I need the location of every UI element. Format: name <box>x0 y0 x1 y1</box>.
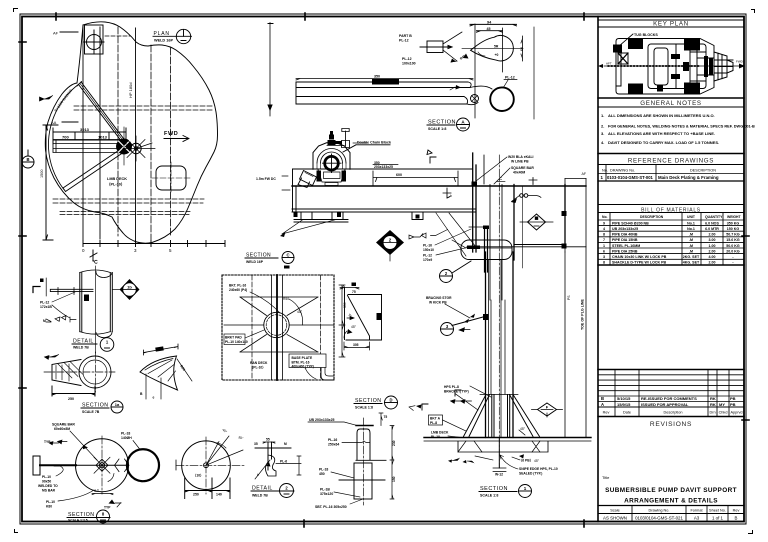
F corner symbols <box>455 390 461 396</box>
plan frame verticals dashed <box>118 27 171 240</box>
svg-text:45°: 45° <box>520 427 526 431</box>
svg-text:WELD 7B: WELD 7B <box>73 346 89 350</box>
svg-text:ISSUED FOR APPROVAL: ISSUED FOR APPROVAL <box>641 402 689 407</box>
svg-text:.M: .M <box>689 238 693 242</box>
cone flat-pattern fan detail <box>140 344 192 400</box>
svg-text:4.7: 4.7 <box>94 489 99 493</box>
right dim line <box>339 285 345 357</box>
svg-text:1.: 1. <box>601 113 604 118</box>
svg-text:PIPE DIA 40NB: PIPE DIA 40NB <box>612 233 638 237</box>
title block text <box>602 475 739 521</box>
svg-text:PIPE DIA 25NB: PIPE DIA 25NB <box>612 249 638 253</box>
svg-text:QUANTITY: QUANTITY <box>705 215 723 219</box>
plan view deck plate outline <box>22 22 273 350</box>
svg-text:3.00: 3.00 <box>709 238 716 242</box>
svg-text:150 KG: 150 KG <box>727 227 740 231</box>
section A-A davit arm beam <box>296 27 534 119</box>
insert plate plan (dashed square) <box>222 252 347 381</box>
svg-text:40x40M: 40x40M <box>513 171 525 175</box>
svg-text:MY: MY <box>719 402 725 407</box>
svg-text:700: 700 <box>62 135 69 140</box>
svg-text:8: 8 <box>603 261 605 265</box>
svg-text:60x60x8M: 60x60x8M <box>54 427 70 431</box>
svg-text:BILL OF MATERIALS: BILL OF MATERIALS <box>641 208 701 214</box>
svg-text:3.: 3. <box>601 131 604 136</box>
F corner mark <box>427 150 436 163</box>
section line vertical <box>533 27 535 119</box>
diamond symbol <box>528 214 546 230</box>
svg-text:A3: A3 <box>694 516 700 521</box>
davit post upper <box>443 153 541 300</box>
svg-text:5R: 5R <box>494 45 499 49</box>
svg-text:WELDED TO: WELDED TO <box>38 484 58 488</box>
svg-text:6.0 NOS: 6.0 NOS <box>705 222 719 226</box>
svg-text:PL-10 140x140: PL-10 140x140 <box>225 340 248 344</box>
svg-text:BRACING STGR: BRACING STGR <box>426 296 452 300</box>
key plan towing chain centerline <box>604 65 740 67</box>
svg-text:1: 1 <box>603 244 605 248</box>
svg-text:BKT A: BKT A <box>430 417 441 421</box>
svg-text:45°: 45° <box>534 459 540 463</box>
svg-text:35: 35 <box>254 442 258 446</box>
section A label <box>427 118 470 131</box>
svg-text:7: 7 <box>603 238 605 242</box>
svg-text:2KG. SET: 2KG. SET <box>683 255 700 259</box>
plan AA gridline label <box>62 121 78 123</box>
svg-text:-b-: -b- <box>348 313 352 317</box>
svg-text:SCALE 1:8: SCALE 1:8 <box>480 494 498 498</box>
svg-text:⟨PL-10⟩: ⟨PL-10⟩ <box>252 366 264 370</box>
svg-text:⟨6 PB⟩: ⟨6 PB⟩ <box>521 459 531 463</box>
svg-text:Main Deck Plating & Framing: Main Deck Plating & Framing <box>658 175 719 180</box>
plan left vertical dim line <box>43 125 58 240</box>
svg-text:SCALE 1:2.5: SCALE 1:2.5 <box>68 519 88 523</box>
svg-text:TYP: TYP <box>104 506 111 510</box>
svg-text:6.0 MTR: 6.0 MTR <box>705 227 719 231</box>
svg-text:No.: No. <box>602 215 608 219</box>
svg-text:2.: 2. <box>601 124 604 129</box>
svg-text:4.00: 4.00 <box>709 255 716 259</box>
svg-text:K80: K80 <box>46 505 52 509</box>
weld flag trio mid <box>451 400 462 404</box>
svg-text:45°: 45° <box>351 325 357 329</box>
svg-text:Drawing No.: Drawing No. <box>649 509 670 513</box>
svg-text:400x400 (TYP): 400x400 (TYP) <box>292 364 314 368</box>
plan weld flag left <box>40 96 53 102</box>
svg-text:8: 8 <box>603 233 605 237</box>
svg-text:ALL ELEVATIONS ARE WITH RESPEC: ALL ELEVATIONS ARE WITH RESPECT TO +BASE… <box>608 131 715 136</box>
svg-text:WELD 7B: WELD 7B <box>252 494 268 498</box>
svg-text:9: 9 <box>603 222 605 226</box>
left leaders to feet <box>282 176 290 190</box>
svg-text:203x133x25: 203x133x25 <box>374 165 393 169</box>
svg-text:b: b <box>450 194 452 198</box>
diamond E right <box>538 403 557 416</box>
svg-text:1500: 1500 <box>40 170 44 178</box>
svg-text:AA: AA <box>51 120 57 125</box>
weld flag left of A <box>83 445 88 449</box>
svg-text:Rev: Rev <box>603 411 610 415</box>
svg-text:D: D <box>389 398 392 403</box>
svg-text:KEY PLAN: KEY PLAN <box>653 21 689 28</box>
svg-text:15.6 KG: 15.6 KG <box>726 238 740 242</box>
svg-text:PL-8: PL-8 <box>430 421 437 425</box>
svg-text:R50: R50 <box>283 297 289 301</box>
svg-text:WEIGHT: WEIGHT <box>727 215 741 219</box>
svg-text:RAN DECK: RAN DECK <box>250 361 268 365</box>
BOM columns <box>610 213 723 266</box>
svg-text:150: 150 <box>392 476 396 482</box>
svg-text:45°: 45° <box>297 310 303 314</box>
plan centerline mark <box>90 250 97 260</box>
svg-text:Scale: Scale <box>610 509 620 513</box>
svg-text:350: 350 <box>343 302 347 308</box>
section D label <box>354 396 398 410</box>
svg-text:UNIT: UNIT <box>687 215 696 219</box>
svg-text:SCALE 1:8: SCALE 1:8 <box>428 127 446 131</box>
svg-text:SEALED (TYP.): SEALED (TYP.) <box>519 472 542 476</box>
ref drawing table columns <box>606 165 656 182</box>
pump silhouette below deck <box>436 213 512 272</box>
svg-text:1013: 1013 <box>98 135 108 140</box>
svg-text:PS: PS <box>567 295 571 300</box>
svg-text:C: C <box>286 253 289 258</box>
svg-text:Sheet No.: Sheet No. <box>709 509 726 513</box>
svg-text:4.: 4. <box>601 140 604 145</box>
svg-text:WELD 16P: WELD 16P <box>246 260 264 264</box>
svg-text:45: 45 <box>487 27 491 31</box>
svg-text:SQUARE BAR: SQUARE BAR <box>52 423 75 427</box>
svg-text:PIPE SCH40 Ø200 NB: PIPE SCH40 Ø200 NB <box>612 222 649 226</box>
svg-text:2.00: 2.00 <box>709 261 716 265</box>
svg-text:PIPE DIA 15NB: PIPE DIA 15NB <box>612 238 638 242</box>
svg-text:W-12: W-12 <box>495 473 503 477</box>
svg-text:0103-0104-GMS-ST-001: 0103-0104-GMS-ST-001 <box>607 175 654 180</box>
svg-text:203x133x25: 203x133x25 <box>374 81 393 85</box>
plan davit arm lower diagonal <box>63 149 124 192</box>
svg-text:PL-1B: PL-1B <box>320 488 330 492</box>
base gussets <box>464 395 540 437</box>
svg-text:Rev: Rev <box>733 509 740 513</box>
svg-text:B: B <box>601 396 604 401</box>
svg-text:No.1: No.1 <box>687 222 695 226</box>
plan AF gridline label <box>60 31 78 33</box>
svg-text:⟨10⟩: ⟨10⟩ <box>195 474 201 478</box>
svg-text:150x10: 150x10 <box>423 248 434 252</box>
left small dim tick <box>443 188 451 198</box>
plan girder strip verticals <box>83 25 100 240</box>
clip detail (DETAIL 2) <box>251 438 301 498</box>
beam pin circle <box>471 95 479 103</box>
svg-text:PL-10: PL-10 <box>46 500 55 504</box>
svg-text:6: 6 <box>603 249 605 253</box>
svg-text:305: 305 <box>353 343 359 347</box>
plan horizontal dashed stringers <box>53 106 214 215</box>
svg-text:20.0 KG: 20.0 KG <box>726 249 740 253</box>
section 1a right labels (UB channel top) <box>0 0 1 1</box>
svg-text:1a: 1a <box>115 402 120 407</box>
svg-text:Drn: Drn <box>709 411 715 415</box>
svg-text:e: e <box>153 396 155 400</box>
svg-text:240x60 (P4): 240x60 (P4) <box>229 288 247 292</box>
bottom circular details <box>33 423 246 524</box>
svg-text:.M: .M <box>689 233 693 237</box>
under deck structure <box>424 441 591 452</box>
svg-text:FOR GENERAL NOTES, WELDING NOT: FOR GENERAL NOTES, WELDING NOTES & MATER… <box>608 125 755 129</box>
pump top gear <box>328 131 343 145</box>
45 deg arc dim <box>289 299 303 325</box>
45 deg small mark <box>519 430 525 435</box>
svg-text:1.5m FW DC: 1.5m FW DC <box>256 177 276 181</box>
svg-text:5/10/15: 5/10/15 <box>617 396 631 401</box>
svg-text:W LINE PB: W LINE PB <box>511 160 529 164</box>
svg-text:WELD 16P: WELD 16P <box>154 39 173 43</box>
teardrop outline <box>471 35 514 60</box>
svg-text:50.0 KG: 50.0 KG <box>726 244 740 248</box>
plan davit arm stowed horizontal <box>53 140 124 153</box>
taper wedge bracket detail <box>340 283 382 351</box>
svg-text:.M: .M <box>689 244 693 248</box>
svg-text:GENERAL NOTES: GENERAL NOTES <box>640 100 701 107</box>
svg-text:15/9/15: 15/9/15 <box>617 402 631 407</box>
section cut symbol B (diamond with circle) <box>376 230 404 261</box>
svg-text:Apprvd: Apprvd <box>730 411 742 415</box>
svg-text:HPS PL-8: HPS PL-8 <box>444 385 459 389</box>
deck line at base <box>424 437 591 439</box>
svg-text:SNIPE EDGE HPS, PL-10: SNIPE EDGE HPS, PL-10 <box>519 467 558 471</box>
svg-text:4: 4 <box>603 227 605 231</box>
corner bracket <box>321 362 334 380</box>
svg-text:4KG. SET: 4KG. SET <box>683 261 700 265</box>
bill of materials table text <box>602 215 741 265</box>
key plan ship hull <box>598 33 745 94</box>
cone detail <box>44 352 123 414</box>
revisions columns <box>615 370 729 417</box>
svg-text:DESCRIPTION: DESCRIPTION <box>690 169 716 173</box>
svg-text:.M: .M <box>689 249 693 253</box>
svg-text:B: B <box>26 157 29 162</box>
lens marks between A and B <box>115 459 130 472</box>
svg-text:2.00: 2.00 <box>709 233 716 237</box>
svg-text:B: B <box>735 516 738 521</box>
svg-text:170x9: 170x9 <box>423 258 432 262</box>
svg-text:350 KG: 350 KG <box>727 222 740 226</box>
svg-text:PL-12: PL-12 <box>505 76 515 80</box>
right panel boxes <box>598 17 744 522</box>
bottom block columns <box>632 506 728 522</box>
svg-text:Double Chain Block: Double Chain Block <box>357 141 391 145</box>
svg-text:60: 60 <box>520 47 524 51</box>
beam dim line <box>296 79 473 81</box>
plan swing arc <box>48 84 79 189</box>
svg-text:PL-10: PL-10 <box>431 435 440 439</box>
svg-text:PL-18: PL-18 <box>121 432 130 436</box>
svg-text:W20 BLA eKALI: W20 BLA eKALI <box>508 155 534 159</box>
svg-text:TUG BLOCKS: TUG BLOCKS <box>634 33 658 37</box>
svg-text:SBT. PL-16 305x250: SBT. PL-16 305x250 <box>315 505 347 509</box>
elevation: trolley rail line <box>256 129 586 238</box>
svg-text:MS BAR: MS BAR <box>42 489 56 493</box>
svg-text:250: 250 <box>193 493 199 497</box>
svg-text:SHACKLE D-TYPE W/ LOCK PB: SHACKLE D-TYPE W/ LOCK PB <box>612 261 667 265</box>
svg-text:AF: AF <box>582 172 587 176</box>
svg-text:CHAIN 10x30 LINK W/ LOCK PB: CHAIN 10x30 LINK W/ LOCK PB <box>612 255 667 259</box>
plan davit socket box <box>85 25 104 54</box>
key plan deckhouse rects <box>648 44 706 89</box>
svg-text:50.7 KG: 50.7 KG <box>726 233 740 237</box>
svg-text:PL-12: PL-12 <box>399 39 409 43</box>
general notes text <box>601 113 755 145</box>
svg-text:BASE PLATE: BASE PLATE <box>292 356 313 360</box>
svg-text:0103/0104-GMS-ST-021: 0103/0104-GMS-ST-021 <box>635 516 683 521</box>
right dim <box>521 36 523 61</box>
svg-text:UB 203x133x25: UB 203x133x25 <box>612 227 638 231</box>
circle A <box>76 439 129 492</box>
svg-text:No.: No. <box>602 169 608 173</box>
svg-text:230: 230 <box>392 440 396 446</box>
circle C <box>182 441 231 490</box>
hatch opening box right <box>467 172 587 438</box>
plan rounded square cutout <box>156 166 186 190</box>
beam support feet <box>301 212 423 220</box>
key plan tug blocks label <box>619 34 633 46</box>
svg-text:250: 250 <box>68 397 74 401</box>
svg-text:SCALE 7B: SCALE 7B <box>82 410 100 414</box>
svg-text:REVISIONS: REVISIONS <box>650 421 692 428</box>
svg-text:Format: Format <box>690 509 703 513</box>
svg-text:DAVIT DESIGNED TO CARRY MAX. L: DAVIT DESIGNED TO CARRY MAX. LOAD OF 1.5… <box>608 140 719 145</box>
svg-text:REFERENCE DRAWINGS: REFERENCE DRAWINGS <box>628 158 714 165</box>
svg-text:1b: 1b <box>127 285 132 290</box>
beam hook ring <box>490 87 514 111</box>
svg-text:PL-16: PL-16 <box>328 438 337 442</box>
svg-text:SCALE 1:8: SCALE 1:8 <box>355 406 373 410</box>
svg-text:350: 350 <box>374 75 380 79</box>
svg-text:1 of 1: 1 of 1 <box>712 516 724 521</box>
channel details bottom right <box>308 413 396 509</box>
plan bottom ruler <box>83 241 225 247</box>
svg-text:3: 3 <box>603 255 605 259</box>
svg-text:RE-ISSUED FOR COMMENTS: RE-ISSUED FOR COMMENTS <box>641 396 697 401</box>
svg-text:PL-6: PL-6 <box>280 460 287 464</box>
svg-text:140: 140 <box>216 493 222 497</box>
svg-text:b: b <box>257 473 259 477</box>
lug detail teardrop <box>459 21 524 119</box>
svg-text:450: 450 <box>319 472 325 476</box>
plan davit arm upper diagonal <box>77 82 125 143</box>
svg-text:HP 180d: HP 180d <box>128 83 133 99</box>
svg-text:UB 203x133x25: UB 203x133x25 <box>309 418 335 422</box>
lower plate <box>354 463 372 499</box>
plan left section bubble <box>22 156 34 168</box>
svg-text:1.00: 1.00 <box>709 244 716 248</box>
svg-text:AF: AF <box>53 31 59 36</box>
svg-text:55: 55 <box>266 438 270 442</box>
45deg flag <box>456 85 462 90</box>
reference drawings table text <box>601 169 719 181</box>
svg-text:BKT. PL-16: BKT. PL-16 <box>229 284 246 288</box>
svg-text:PB: PB <box>730 396 736 401</box>
svg-text:PART B: PART B <box>399 34 412 38</box>
svg-text:BRKT PAD: BRKT PAD <box>225 336 242 340</box>
svg-text:ALL DIMENSIONS ARE SHOWN IN MI: ALL DIMENSIONS ARE SHOWN IN MILLIMETERS … <box>608 113 715 118</box>
svg-text:SUBMERSIBLE PUMP DAVIT SUPPORT: SUBMERSIBLE PUMP DAVIT SUPPORT <box>605 487 737 494</box>
svg-text:PL-18: PL-18 <box>319 468 328 472</box>
svg-text:LMB DECK: LMB DECK <box>107 177 127 181</box>
detail 1b diamond balloon <box>120 279 140 300</box>
svg-text:M: M <box>284 442 287 446</box>
svg-text:3013: 3013 <box>80 127 90 132</box>
plan pivot circles <box>117 139 132 154</box>
svg-text:PB: PB <box>730 402 736 407</box>
dim above beam <box>373 171 458 186</box>
svg-text:FWD: FWD <box>164 131 178 137</box>
svg-text:90x50: 90x50 <box>42 480 51 484</box>
svg-text:600: 600 <box>396 173 402 177</box>
svg-text:PL-12: PL-12 <box>423 254 432 258</box>
svg-text:375x120: 375x120 <box>320 492 333 496</box>
plan dimension box 700/3013 <box>53 128 126 144</box>
davit post lower <box>409 155 591 498</box>
svg-text:W KICK PB: W KICK PB <box>429 301 447 305</box>
svg-text:250x64: 250x64 <box>328 443 339 447</box>
flat bar PL-12 <box>50 289 93 291</box>
svg-text:⟨PL-10⟩: ⟨PL-10⟩ <box>109 182 123 187</box>
svg-text:PL-12: PL-12 <box>40 301 49 305</box>
revisions table text <box>601 396 743 415</box>
hoist discharge spout <box>300 171 317 186</box>
key plan hatch black marks <box>613 39 713 95</box>
svg-text:RK: RK <box>710 396 716 401</box>
svg-text:+0: +0 <box>495 53 499 57</box>
svg-text:FWD: FWD <box>736 60 744 64</box>
svg-text:100x100: 100x100 <box>402 62 416 66</box>
right dims <box>379 413 383 426</box>
svg-text:No.1: No.1 <box>687 227 695 231</box>
svg-text:SQUARE BAR: SQUARE BAR <box>511 166 534 170</box>
pump trolley below rail <box>318 170 345 183</box>
weld symbol near post <box>520 194 524 198</box>
svg-text:75: 75 <box>384 415 388 419</box>
svg-text:Description: Description <box>664 411 683 415</box>
right dim verticals <box>565 179 586 438</box>
svg-text:AS SHOWN: AS SHOWN <box>603 516 627 521</box>
chain hoist pump body <box>313 143 350 170</box>
svg-text:PL-10: PL-10 <box>42 475 51 479</box>
svg-text:PL-12: PL-12 <box>402 57 412 61</box>
svg-text:2.00: 2.00 <box>709 249 716 253</box>
svg-text:RK: RK <box>710 402 716 407</box>
dims below circle C <box>185 478 230 499</box>
panel header texts <box>628 21 714 428</box>
pipe detail <box>33 259 140 354</box>
svg-text:AFT: AFT <box>606 62 612 66</box>
svg-text:LMB DECK: LMB DECK <box>431 431 449 435</box>
svg-text:Date: Date <box>623 411 631 415</box>
svg-text:A: A <box>601 402 604 407</box>
svg-text:ARRANGEMENT & DETAILS: ARRANGEMENT & DETAILS <box>624 498 718 505</box>
rod and end plate <box>33 456 40 475</box>
svg-text:M: M <box>43 319 46 323</box>
key plan bow block <box>714 52 733 81</box>
pad plate mini detail <box>399 32 462 66</box>
svg-text:75: 75 <box>352 290 356 294</box>
svg-text:DRAWING No.: DRAWING No. <box>610 169 635 173</box>
svg-text:STEEL PL-16MM: STEEL PL-16MM <box>612 244 640 248</box>
svg-text:℃: ℃ <box>92 259 98 266</box>
svg-text:DESCRIPTION: DESCRIPTION <box>640 215 664 219</box>
junction labels and weld flags near beam/post <box>409 229 471 262</box>
